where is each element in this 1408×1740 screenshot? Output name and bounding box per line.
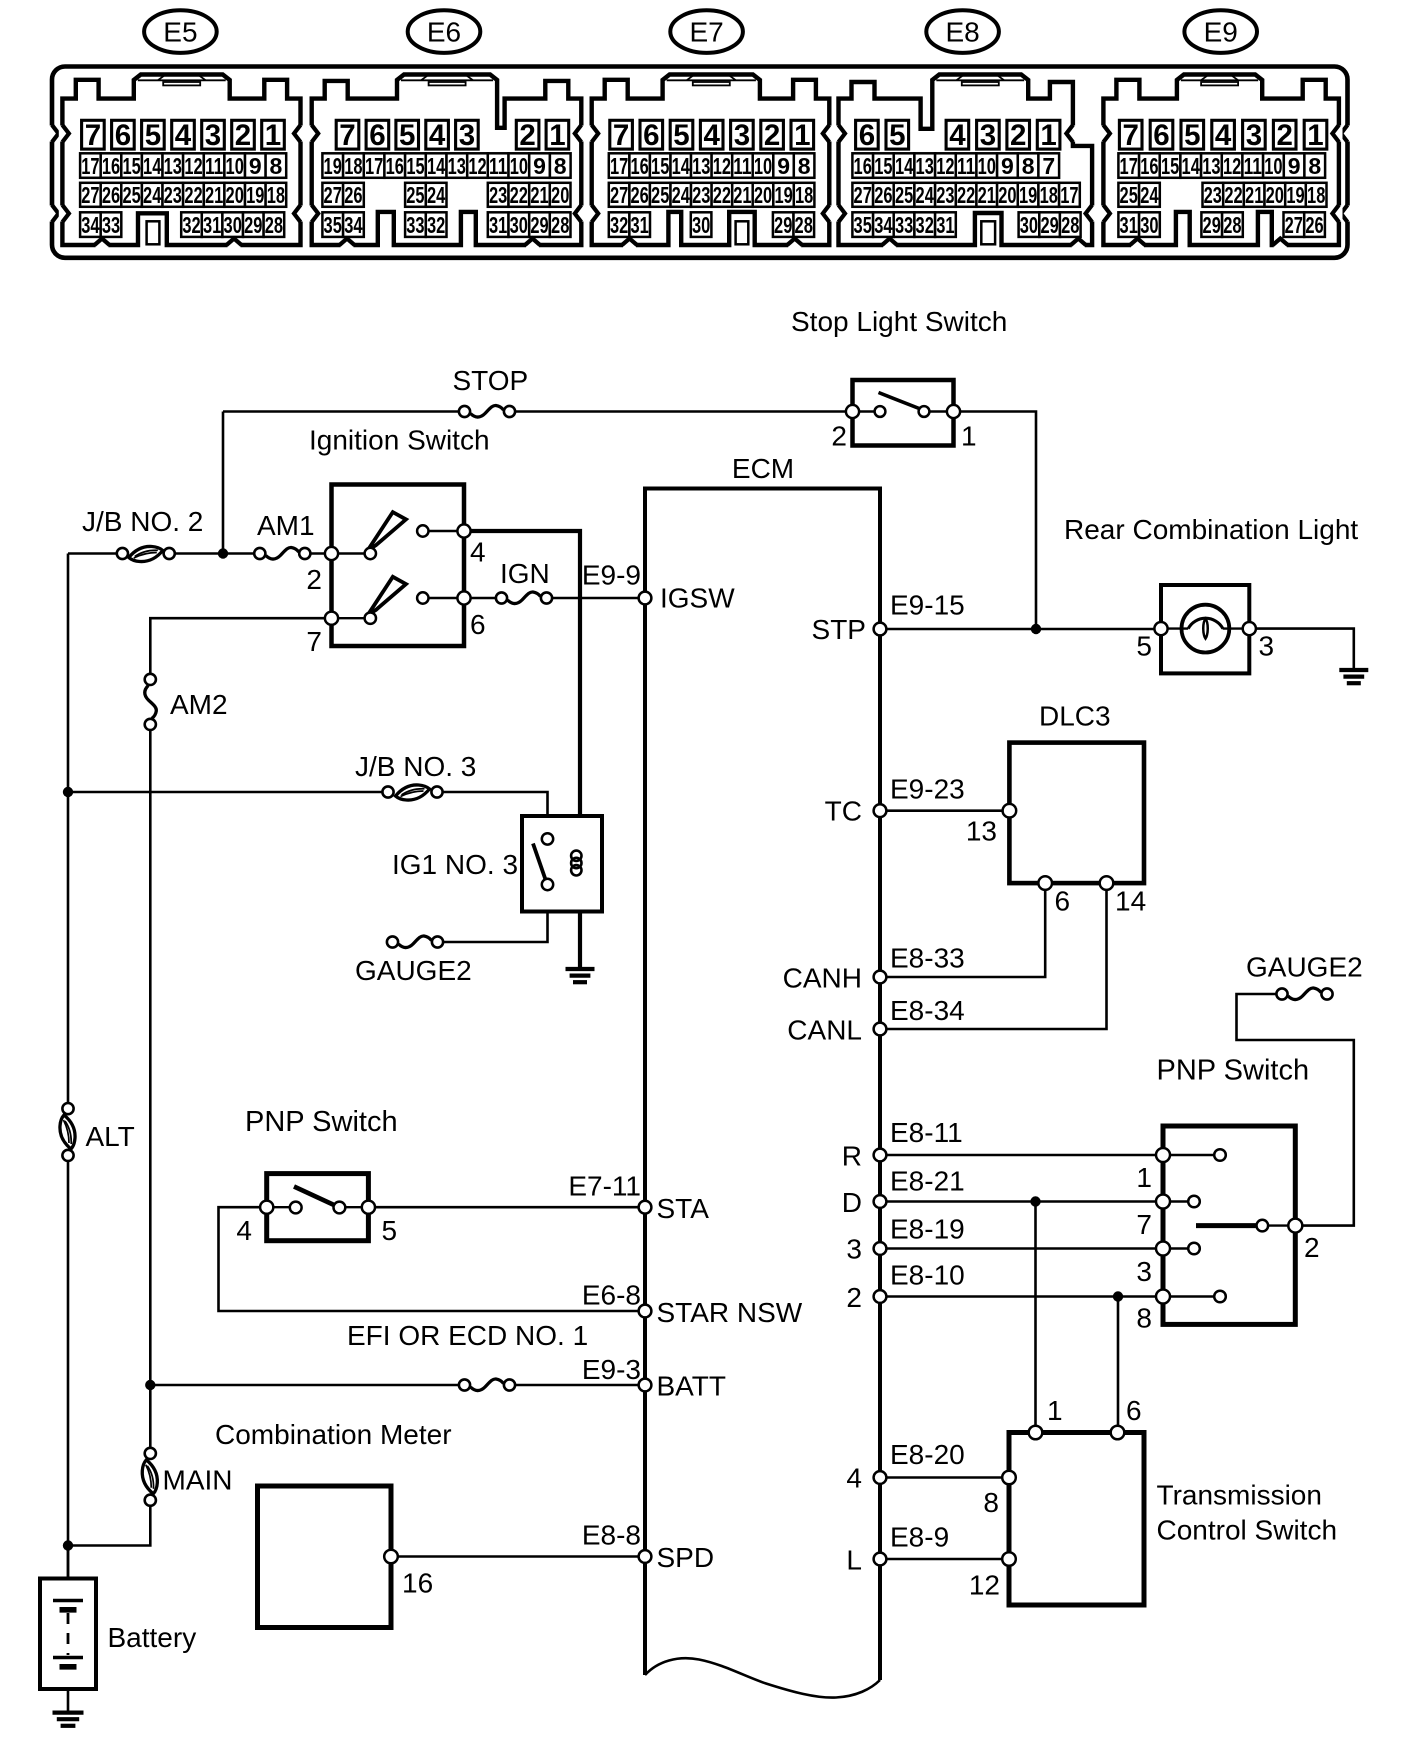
E6 pin 30 [509, 212, 530, 238]
svg-text:5: 5 [382, 1215, 398, 1246]
svg-text:E8-9: E8-9 [890, 1522, 949, 1553]
E5 pin 13 [163, 153, 184, 179]
ground rear light [1339, 670, 1368, 683]
svg-text:16: 16 [1140, 153, 1158, 179]
svg-text:5: 5 [1136, 631, 1152, 662]
wire combination meter pin 16 to SPD [391, 1555, 645, 1558]
svg-text:6: 6 [470, 609, 486, 640]
svg-text:AM1: AM1 [257, 510, 315, 541]
E5 pin 10 [224, 153, 245, 179]
ECM torn bottom edge [645, 1658, 880, 1697]
E7 pin 19 [773, 182, 794, 208]
ECM terminal CANL [874, 1023, 887, 1036]
TCS terminal 1 [1029, 1426, 1043, 1440]
E7 pin 3 [731, 119, 754, 152]
svg-text:4: 4 [1215, 119, 1232, 152]
svg-text:20: 20 [998, 182, 1016, 208]
svg-text:5: 5 [399, 119, 415, 152]
svg-text:6: 6 [643, 119, 659, 152]
PNP terminal 2 [1288, 1219, 1302, 1233]
svg-text:1: 1 [1136, 1162, 1152, 1193]
ECM terminal 4 [874, 1471, 887, 1484]
E7 pin 4 [700, 119, 723, 152]
connector E9 body [1103, 75, 1339, 246]
E9 pin 18 [1306, 182, 1327, 208]
wire J/B NO. 3 to relay [437, 792, 548, 839]
E7 pin 8 [794, 153, 815, 179]
wire CANL to DLC3 pin 14 [880, 883, 1107, 1029]
svg-text:2: 2 [519, 119, 535, 152]
svg-text:MAIN: MAIN [163, 1465, 233, 1496]
wire EFI fuse to BATT [510, 1384, 646, 1387]
fusible link J/B NO. 3 [382, 785, 442, 800]
svg-text:19: 19 [324, 153, 342, 179]
connector label E9 [1184, 10, 1257, 53]
E7 pin 24 [671, 182, 692, 208]
E6 pin 2 [516, 119, 539, 152]
svg-text:4: 4 [470, 537, 486, 568]
E5 pin 1 [262, 119, 285, 152]
E8 pin 35 [852, 212, 873, 238]
E8 pin 19 [1018, 182, 1039, 208]
svg-text:11: 11 [733, 153, 751, 179]
svg-text:17: 17 [1060, 182, 1078, 208]
E9 pin 15 [1160, 153, 1181, 179]
svg-text:21: 21 [978, 182, 996, 208]
svg-text:13: 13 [164, 153, 182, 179]
E9 pin 5 [1181, 119, 1204, 152]
E5 pin 4 [172, 119, 195, 152]
combination meter box [258, 1486, 392, 1628]
svg-text:E9-23: E9-23 [890, 774, 965, 805]
E7 pin 10 [753, 153, 774, 179]
svg-text:27: 27 [610, 182, 628, 208]
svg-text:1: 1 [794, 119, 810, 152]
svg-text:1: 1 [549, 119, 565, 152]
svg-text:E6-8: E6-8 [582, 1280, 641, 1311]
svg-text:Battery: Battery [108, 1622, 197, 1653]
svg-text:32: 32 [610, 212, 628, 238]
E8 pin 18 [1038, 182, 1059, 208]
svg-text:E5: E5 [163, 16, 197, 47]
wire STOP fuse to stop light switch [510, 410, 853, 413]
svg-text:6: 6 [115, 119, 131, 152]
svg-text:E7: E7 [689, 16, 723, 47]
svg-text:22: 22 [1224, 182, 1242, 208]
svg-text:23: 23 [936, 182, 954, 208]
fuse EFI OR ECD NO. 1 [459, 1379, 515, 1391]
svg-text:17: 17 [1120, 153, 1138, 179]
svg-text:26: 26 [102, 182, 120, 208]
E5 pin 9 [245, 153, 266, 179]
svg-text:5: 5 [673, 119, 689, 152]
E7 pin 27 [609, 182, 630, 208]
E9 pin 30 [1139, 212, 1160, 238]
E8 pin 24 [914, 182, 935, 208]
ignition switch box [332, 485, 465, 647]
TCS terminal 6 [1111, 1426, 1125, 1440]
svg-text:2: 2 [306, 564, 322, 595]
svg-text:3: 3 [1136, 1256, 1152, 1287]
E7 pin 13 [691, 153, 712, 179]
svg-text:8: 8 [1136, 1303, 1152, 1334]
connector E7 body [592, 75, 830, 246]
svg-text:6: 6 [1055, 886, 1071, 917]
wire STOP feed top [223, 410, 465, 413]
E8 pin 15 [873, 153, 894, 179]
E9 pin 24 [1139, 182, 1160, 208]
E6 pin 18 [343, 153, 364, 179]
wire stop light switch to junction [954, 412, 1037, 630]
svg-text:29: 29 [1203, 212, 1221, 238]
svg-text:2: 2 [831, 421, 847, 452]
svg-text:4: 4 [846, 1463, 862, 1494]
E6 pin 6 [366, 119, 389, 152]
svg-text:IG1 NO. 3: IG1 NO. 3 [392, 849, 518, 880]
svg-text:16: 16 [854, 153, 872, 179]
svg-text:13: 13 [966, 816, 997, 847]
E9 pin 6 [1150, 119, 1173, 152]
svg-text:3: 3 [980, 119, 996, 152]
svg-text:35: 35 [854, 212, 872, 238]
connector label E8 [926, 10, 999, 53]
rear light terminal 3 [1243, 622, 1256, 635]
ignition switch wedge lever 1 [368, 512, 406, 550]
E5 pin 29 [243, 212, 264, 238]
E6 pin 29 [529, 212, 550, 238]
E9 pin 27 [1284, 212, 1305, 238]
svg-text:25: 25 [1120, 182, 1138, 208]
svg-text:2: 2 [764, 119, 780, 152]
svg-text:13: 13 [916, 153, 934, 179]
svg-text:4: 4 [429, 119, 446, 152]
E6 pin 10 [509, 153, 530, 179]
PNP terminal 5 [362, 1201, 375, 1214]
E5 pin 22 [183, 182, 204, 208]
svg-text:7: 7 [1122, 119, 1138, 152]
E8 pin 21 [976, 182, 997, 208]
svg-text:16: 16 [630, 153, 648, 179]
transmission control switch box [1009, 1433, 1144, 1606]
ignition switch inner contact pole 2 [365, 613, 376, 624]
svg-text:15: 15 [122, 153, 140, 179]
svg-text:25: 25 [651, 182, 669, 208]
E8 pin 2 [1007, 119, 1030, 152]
E9 pin 19 [1285, 182, 1306, 208]
junction BATT tap [145, 1380, 155, 1390]
svg-text:DLC3: DLC3 [1039, 701, 1111, 732]
svg-text:27: 27 [324, 182, 342, 208]
svg-text:20: 20 [551, 182, 569, 208]
svg-text:31: 31 [630, 212, 648, 238]
svg-text:8: 8 [1022, 153, 1035, 179]
svg-text:14: 14 [895, 153, 913, 179]
PNP selector contact [1257, 1220, 1269, 1232]
svg-text:11: 11 [205, 153, 223, 179]
ground battery [53, 1713, 84, 1726]
svg-text:8: 8 [798, 153, 811, 179]
svg-text:28: 28 [795, 212, 813, 238]
E9 pin 1 [1304, 119, 1327, 152]
svg-text:26: 26 [1305, 212, 1323, 238]
svg-text:22: 22 [713, 182, 731, 208]
svg-text:E9-15: E9-15 [890, 590, 965, 621]
junction battery MAIN tap [63, 1540, 73, 1550]
svg-text:11: 11 [957, 153, 975, 179]
E8 pin 22 [956, 182, 977, 208]
stop light switch contact stubs [853, 410, 954, 412]
E9 pin 20 [1265, 182, 1286, 208]
svg-text:30: 30 [692, 212, 710, 238]
rear light bulb [1161, 605, 1249, 653]
svg-text:27: 27 [1285, 212, 1303, 238]
ECM terminal STP [874, 623, 887, 636]
svg-text:31: 31 [936, 212, 954, 238]
battery plates [53, 1601, 83, 1667]
E5 pin 34 [80, 212, 101, 238]
PNP switch (starter) box [267, 1174, 369, 1241]
wire D junction to TCS pin 1 [1034, 1202, 1037, 1433]
svg-text:12: 12 [184, 153, 202, 179]
svg-text:E7-11: E7-11 [568, 1171, 641, 1202]
svg-text:3: 3 [1246, 119, 1262, 152]
wire 2 junction to TCS pin 6 [1117, 1297, 1120, 1433]
E5 pin 33 [101, 212, 122, 238]
E9 pin 28 [1222, 212, 1243, 238]
svg-text:STA: STA [657, 1193, 710, 1224]
E8 pin 29 [1039, 212, 1060, 238]
E5 pin 7 [82, 119, 105, 152]
svg-text:29: 29 [530, 212, 548, 238]
PNP switch contact stubs [1163, 1155, 1220, 1297]
svg-text:E8-33: E8-33 [890, 943, 965, 974]
E5 keying slot [147, 221, 160, 244]
svg-text:31: 31 [203, 212, 221, 238]
svg-text:2: 2 [235, 119, 251, 152]
svg-text:IGN: IGN [500, 558, 550, 589]
svg-text:23: 23 [692, 182, 710, 208]
svg-text:12: 12 [936, 153, 954, 179]
ignition switch inner contact 6 [417, 592, 428, 603]
E7 pin 14 [671, 153, 692, 179]
wire GAUGE2 to PNP pin 2 [1237, 994, 1354, 1226]
svg-text:23: 23 [1204, 182, 1222, 208]
svg-text:20: 20 [754, 182, 772, 208]
svg-text:32: 32 [182, 212, 200, 238]
E6 pin 9 [529, 153, 550, 179]
svg-text:Control Switch: Control Switch [1157, 1515, 1338, 1546]
svg-text:30: 30 [1140, 212, 1158, 238]
svg-text:4: 4 [175, 119, 192, 152]
E7 pin 6 [640, 119, 663, 152]
svg-text:10: 10 [754, 153, 772, 179]
svg-text:22: 22 [957, 182, 975, 208]
svg-text:10: 10 [510, 153, 528, 179]
PNP switch blade [294, 1187, 334, 1206]
svg-text:5: 5 [1184, 119, 1200, 152]
PNP switch box [1163, 1126, 1295, 1324]
svg-text:34: 34 [344, 212, 362, 238]
E8 pin 14 [894, 153, 915, 179]
E6 pin 32 [426, 212, 447, 238]
svg-text:18: 18 [344, 153, 362, 179]
svg-text:33: 33 [102, 212, 120, 238]
wire AM1 to ignition switch pin 2 [307, 552, 332, 555]
E6 pin 24 [426, 182, 447, 208]
E8 pin 5 [886, 119, 909, 152]
junction 2 to TCS [1113, 1291, 1123, 1301]
battery box [40, 1579, 96, 1690]
svg-text:18: 18 [1307, 182, 1325, 208]
svg-text:6: 6 [859, 119, 875, 152]
svg-text:24: 24 [916, 182, 934, 208]
svg-text:E8-11: E8-11 [890, 1117, 963, 1148]
svg-text:19: 19 [774, 182, 792, 208]
E9 pin 25 [1118, 182, 1139, 208]
E7 pin 25 [650, 182, 671, 208]
E8 pin 13 [914, 153, 935, 179]
E6 pin 19 [322, 153, 343, 179]
svg-text:3: 3 [846, 1234, 862, 1265]
svg-text:23: 23 [489, 182, 507, 208]
E9 pin 2 [1273, 119, 1296, 152]
E8 pin 28 [1060, 212, 1081, 238]
svg-text:4: 4 [703, 119, 720, 152]
svg-text:8: 8 [554, 153, 567, 179]
ECM terminal IGSW [639, 592, 652, 605]
svg-text:30: 30 [224, 212, 242, 238]
svg-text:14: 14 [143, 153, 161, 179]
relay IG1 NO. 3 blade [533, 844, 546, 882]
wire 3 to PNP pin 3 [880, 1247, 1163, 1250]
E6 pin 28 [550, 212, 571, 238]
rear light terminal 5 [1154, 622, 1167, 635]
ignition switch inner contact 4 [417, 525, 428, 536]
connector label E7 [670, 10, 743, 53]
E9 pin 22 [1223, 182, 1244, 208]
svg-text:1: 1 [1047, 1395, 1063, 1426]
svg-text:J/B NO. 2: J/B NO. 2 [82, 506, 203, 537]
E6 pin 25 [405, 182, 426, 208]
E7 pin 15 [650, 153, 671, 179]
DLC3 terminal 6 [1038, 876, 1052, 890]
E6 pin 13 [447, 153, 468, 179]
E5 pin 17 [80, 153, 101, 179]
svg-text:25: 25 [122, 182, 140, 208]
E9 pin 4 [1212, 119, 1235, 152]
svg-text:17: 17 [81, 153, 99, 179]
E9 pin 12 [1222, 153, 1243, 179]
svg-text:7: 7 [85, 119, 101, 152]
ignition switch inner contact pole 1 [365, 548, 376, 559]
ECM terminal R [874, 1149, 887, 1162]
svg-text:20: 20 [226, 182, 244, 208]
E9 pin 23 [1203, 182, 1224, 208]
E5 pin 12 [183, 153, 204, 179]
svg-text:28: 28 [265, 212, 283, 238]
E5 pin 28 [264, 212, 285, 238]
E8 pin 27 [852, 182, 873, 208]
E6 pin 11 [488, 153, 509, 179]
PNP inner contact 8 [1214, 1291, 1226, 1303]
svg-text:BATT: BATT [657, 1371, 726, 1402]
E5 pin 19 [245, 182, 266, 208]
svg-text:ECM: ECM [732, 453, 794, 484]
E6 pin 22 [509, 182, 530, 208]
svg-text:30: 30 [1020, 212, 1038, 238]
E6 pin 15 [405, 153, 426, 179]
PNP terminal 4 [260, 1201, 273, 1214]
svg-text:1: 1 [265, 119, 281, 152]
svg-text:27: 27 [81, 182, 99, 208]
svg-text:31: 31 [489, 212, 507, 238]
E7 pin 22 [712, 182, 733, 208]
svg-text:24: 24 [143, 182, 161, 208]
svg-text:17: 17 [365, 153, 383, 179]
E6 pin 27 [322, 182, 343, 208]
connector E5 body [62, 75, 300, 246]
PNP inner contact 1 [1214, 1149, 1226, 1161]
svg-text:13: 13 [1202, 153, 1220, 179]
svg-text:9: 9 [1001, 153, 1014, 179]
PNP inner contact right [334, 1202, 346, 1214]
relay IG1 NO. 3 coil [571, 851, 581, 876]
svg-text:31: 31 [1120, 212, 1138, 238]
svg-text:32: 32 [427, 212, 445, 238]
svg-text:E8-34: E8-34 [890, 995, 965, 1026]
E6 pin 17 [364, 153, 385, 179]
svg-text:2: 2 [846, 1282, 862, 1313]
connector body edge notches [48, 125, 58, 142]
E8 pin 1 [1037, 119, 1060, 152]
wire MAIN to battery junction [68, 1506, 150, 1545]
svg-text:E9: E9 [1204, 16, 1238, 47]
PNP selector contact wire [1268, 1224, 1288, 1226]
ignition switch terminal 6 [457, 591, 470, 604]
E7 pin 26 [629, 182, 650, 208]
svg-text:21: 21 [1245, 182, 1263, 208]
ignition switch terminal 2 [325, 547, 338, 560]
E9 pin 29 [1201, 212, 1222, 238]
E5 pin 3 [202, 119, 225, 152]
svg-text:TC: TC [825, 796, 862, 827]
svg-text:20: 20 [1266, 182, 1284, 208]
svg-text:8: 8 [1308, 153, 1321, 179]
E9 pin 10 [1263, 153, 1284, 179]
wire rear light to ground [1249, 629, 1354, 670]
stop light switch inner contact left [875, 406, 886, 417]
svg-text:1: 1 [1040, 119, 1056, 152]
svg-text:21: 21 [530, 182, 548, 208]
E5 pin 23 [163, 182, 184, 208]
E5 pin 32 [181, 212, 202, 238]
svg-text:28: 28 [551, 212, 569, 238]
svg-text:29: 29 [244, 212, 262, 238]
svg-text:18: 18 [795, 182, 813, 208]
svg-text:STOP: STOP [453, 365, 529, 396]
E8 pin 25 [894, 182, 915, 208]
svg-text:24: 24 [427, 182, 445, 208]
fusible link J/B NO. 2 [117, 546, 175, 561]
svg-text:1: 1 [1307, 119, 1323, 152]
svg-text:23: 23 [164, 182, 182, 208]
E7 pin 29 [773, 212, 794, 238]
svg-text:26: 26 [344, 182, 362, 208]
PNP terminal 7 [1156, 1195, 1170, 1209]
svg-text:29: 29 [1040, 212, 1058, 238]
E5 pin 27 [80, 182, 101, 208]
wire 4 to TCS pin 8 [880, 1476, 1009, 1479]
